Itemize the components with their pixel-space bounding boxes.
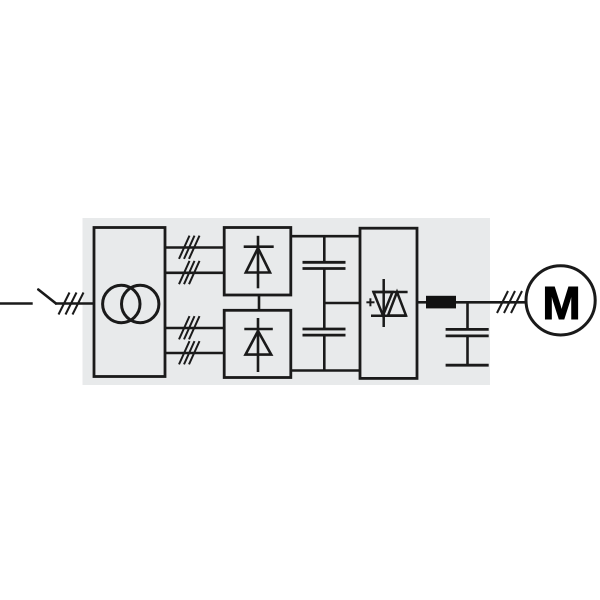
capacitor C3 (output filter) lead	[466, 302, 469, 329]
capacitor C2 (lower DC link)	[303, 329, 346, 335]
wire: DC bus positive rail	[291, 235, 360, 238]
inductor L1 (output choke, filled)	[426, 296, 456, 309]
3-phase slash marks secondary 3	[179, 316, 200, 339]
inverter box U1	[360, 228, 417, 378]
wire: transformer secondary winding 2	[165, 271, 224, 274]
3-phase slash marks secondary 4	[179, 341, 200, 364]
wire: switch to transformer	[55, 302, 94, 305]
motor M1 circle	[526, 266, 595, 335]
3-phase slash marks secondary 2	[179, 261, 200, 284]
rectifier bridge box V1 (upper)	[224, 228, 291, 296]
wire: inverter output	[417, 301, 427, 304]
wire: DC bus negative rail	[291, 369, 360, 372]
3-phase slash marks on motor wire	[497, 291, 522, 313]
wire: choke to motor	[456, 301, 527, 304]
diode symbol in V2	[244, 318, 272, 372]
switch Q1 (line disconnect blade)	[38, 290, 56, 304]
rectifier bridge box V2 (lower)	[224, 310, 291, 377]
plus sign label of inverter	[366, 298, 374, 306]
transformer T1 symbol (two overlapping circles)	[103, 285, 159, 322]
wire: DC midpoint rail to inverter	[324, 302, 360, 305]
3-phase slash marks secondary 1	[179, 236, 200, 259]
wire: DC link capacitor string vertical	[323, 236, 326, 370]
converter cabinet background panel	[83, 218, 491, 385]
wire: incoming supply line	[0, 302, 33, 305]
wire: link between rectifier boxes V1-V2	[258, 295, 261, 310]
3-phase slash marks on input wire	[59, 293, 84, 315]
diode symbol in V1	[244, 236, 274, 288]
transformer T1 enclosure box	[94, 228, 165, 377]
capacitor C3 lower lead	[466, 336, 469, 365]
ground bar of C3	[446, 364, 489, 367]
wire: transformer secondary winding 1	[165, 246, 224, 249]
svg-text:M: M	[542, 277, 580, 329]
capacitor C3 plates	[446, 329, 489, 336]
thyristor/inverter symbol in U1	[371, 279, 408, 327]
wire: transformer secondary winding 3	[165, 327, 224, 330]
wire: transformer secondary winding 4	[165, 352, 224, 355]
capacitor C1 (upper DC link)	[303, 262, 346, 268]
